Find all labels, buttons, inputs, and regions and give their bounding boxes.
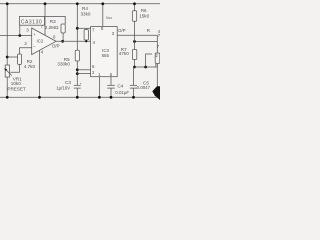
svg-text:555: 555 [102, 53, 110, 58]
wire Vcc into pin 8 [102, 4, 104, 27]
node R3 output junction [61, 40, 64, 43]
svg-text:R3: R3 [50, 19, 56, 24]
node bottom-left junction [6, 96, 9, 99]
svg-text:7: 7 [158, 33, 160, 38]
capacitor C5 plates [130, 84, 137, 86]
wire C5 to 0V [132, 88, 134, 97]
potentiometer VR1 wiper arrow [5, 69, 12, 76]
capacitor C3 plates [74, 84, 81, 86]
wire pin1 to 0V [98, 77, 100, 98]
wire pin4 to 0V [39, 50, 41, 97]
svg-text:0.01µF: 0.01µF [115, 90, 129, 95]
svg-text:330k0: 330k0 [57, 62, 70, 67]
wire to 555 pin2 [77, 73, 90, 75]
svg-text:2.2MΩ: 2.2MΩ [45, 25, 59, 30]
wire left branch vertical [6, 4, 8, 65]
svg-text:O/P: O/P [118, 28, 126, 33]
resistor R6 body [132, 11, 136, 21]
svg-text:Vcc: Vcc [106, 16, 112, 20]
loudspeaker LS1 (cropped) [152, 86, 160, 100]
wire R7 bottom [134, 60, 136, 68]
wire feedback riser to CA3130 box [19, 25, 21, 35]
wire opamp output to 555 pin4 [56, 40, 91, 42]
potentiometer VR1 body [5, 65, 9, 77]
wire C5 column [133, 67, 135, 85]
wire VR1 wiper to R2 [11, 64, 20, 72]
svg-text:15k0: 15k0 [139, 13, 149, 18]
wire R6 top [134, 4, 136, 11]
wire R4 top stub [85, 28, 87, 29]
wire pin5 down [110, 77, 112, 86]
resistor R7 body [132, 50, 136, 60]
wire riser at x145 [146, 54, 152, 67]
node pin6 junction [76, 68, 79, 71]
svg-text:33k0: 33k0 [81, 11, 91, 16]
svg-text:4.7k0: 4.7k0 [24, 64, 36, 69]
wire speaker column [156, 42, 158, 54]
node left rail mid junction [6, 56, 9, 59]
wire R3 bottom to output [62, 33, 64, 41]
svg-text:+: + [33, 32, 36, 37]
svg-text:E: E [155, 63, 158, 68]
wire pin2 input [20, 48, 32, 54]
wire R5 bottom column [76, 61, 78, 85]
node top-left junction [6, 2, 9, 5]
wire supply dropper column x77 [76, 4, 78, 51]
svg-text:−: − [33, 44, 36, 49]
svg-text:1µ/16V: 1µ/16V [56, 85, 70, 90]
CA3130 label box [20, 16, 45, 25]
svg-text:O/P: O/P [52, 44, 60, 49]
wire R4 bottom stub [85, 40, 87, 41]
node pin2 junction [76, 72, 79, 75]
wire C4 to 0V [110, 88, 112, 97]
resistor R5 body [75, 50, 79, 61]
wire bottom 0V rail [0, 96, 160, 98]
wire from left rail node to R2 bottom area [7, 56, 17, 58]
resistor R3 body [61, 24, 65, 33]
node feedback junction on pin3 wire [18, 34, 21, 37]
resistor R4 body [84, 30, 88, 41]
wire R6 bottom to junction [134, 21, 136, 49]
wire to 555 pin7 [77, 27, 90, 29]
wire pin3 input from left edge [0, 35, 32, 37]
svg-text:CA3130: CA3130 [21, 20, 42, 26]
resistor R2 body [18, 54, 22, 64]
wire C3 to 0V [76, 88, 78, 97]
svg-text:47k0: 47k0 [119, 51, 129, 56]
op-amp IC2 triangle [32, 28, 56, 55]
wire feedback top run to R3 [45, 16, 66, 24]
wire 555 output run [117, 35, 157, 41]
capacitor C4 plates [107, 84, 115, 86]
resistor R8 body cropped [155, 53, 160, 64]
svg-text:10k0: 10k0 [11, 81, 21, 86]
wire R6/R7 junction run [135, 41, 158, 43]
wire top supply rail [0, 3, 160, 5]
wire to 555 pin6 [77, 69, 90, 71]
svg-text:IC2: IC2 [37, 39, 44, 44]
wire pin7 supply [44, 4, 46, 35]
node pin7 junction [76, 27, 79, 30]
svg-text:+: + [80, 82, 82, 86]
svg-text:PRESET: PRESET [7, 87, 26, 92]
wire lower right run [135, 66, 158, 68]
svg-text:0.0047: 0.0047 [137, 85, 151, 90]
svg-text:C4: C4 [117, 84, 123, 89]
IC3 555 box [91, 27, 118, 77]
svg-text:R: R [147, 28, 150, 33]
